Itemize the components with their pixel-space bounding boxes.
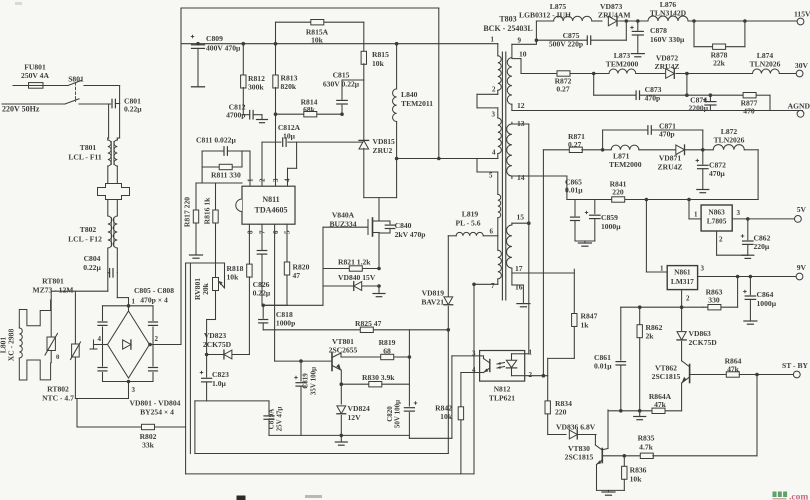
svg-text:2CK75D: 2CK75D bbox=[689, 338, 718, 347]
T803 secondary winding 15-16 bbox=[507, 225, 512, 268]
resistor R872 bbox=[557, 71, 570, 76]
svg-text:LCL - F12: LCL - F12 bbox=[68, 235, 102, 244]
base row R835 bbox=[603, 455, 641, 457]
svg-text:C878: C878 bbox=[650, 26, 667, 35]
svg-text:47: 47 bbox=[293, 271, 301, 280]
svg-text:R836: R836 bbox=[630, 466, 647, 475]
capacitor C815 bbox=[342, 79, 364, 81]
wire cross to T802 bbox=[107, 200, 109, 217]
capacitor C819 bbox=[299, 359, 303, 363]
terminal AGND bbox=[800, 111, 802, 113]
outer loop bottom bbox=[186, 473, 474, 475]
diode VD815 bbox=[359, 140, 369, 149]
wire AC bottom bbox=[2, 103, 65, 105]
svg-text:3: 3 bbox=[701, 265, 705, 273]
9V output bbox=[698, 276, 800, 278]
svg-text:ST - BY: ST - BY bbox=[782, 361, 809, 370]
svg-text:L840: L840 bbox=[401, 90, 418, 99]
resistor R835 bbox=[640, 453, 653, 458]
T803 primary winding 6-7 bbox=[498, 250, 502, 279]
resistor R811 bbox=[202, 166, 242, 168]
resistor R812 bbox=[242, 42, 246, 46]
wire node3 return bbox=[128, 382, 130, 399]
svg-text:1: 1 bbox=[491, 36, 495, 44]
bus vertical outer bbox=[185, 263, 187, 474]
wire pin15 bbox=[512, 222, 529, 224]
resistor R864A bbox=[652, 408, 665, 413]
resistor R818 pin8 bbox=[248, 224, 250, 264]
wire pin9 up bbox=[535, 21, 537, 44]
svg-text:TDA4605: TDA4605 bbox=[255, 206, 288, 215]
svg-text:330: 330 bbox=[708, 296, 720, 305]
degaussing coil plug L801 bbox=[19, 310, 50, 329]
svg-text:N863: N863 bbox=[708, 208, 725, 217]
svg-text:7: 7 bbox=[491, 282, 495, 290]
svg-text:5: 5 bbox=[489, 172, 493, 180]
IC N863 L7805 bbox=[688, 200, 690, 219]
wire C804 to bridge node 1 bbox=[116, 273, 118, 298]
svg-text:VD871: VD871 bbox=[659, 154, 682, 163]
svg-text:5V: 5V bbox=[797, 205, 807, 214]
svg-text:R825 47: R825 47 bbox=[355, 319, 382, 328]
svg-text:VD824: VD824 bbox=[348, 404, 371, 413]
svg-text:PL - 5.6: PL - 5.6 bbox=[455, 219, 480, 228]
svg-text:3: 3 bbox=[132, 386, 136, 394]
emitter bottom row bbox=[269, 434, 409, 436]
svg-text:50V 100μ: 50V 100μ bbox=[394, 400, 402, 428]
svg-text:68: 68 bbox=[383, 347, 391, 356]
capacitor C873 bbox=[592, 72, 596, 76]
svg-text:R821 1.2k: R821 1.2k bbox=[338, 258, 371, 267]
capacitor C862 bbox=[741, 235, 744, 237]
pin6 wire bbox=[274, 224, 276, 361]
svg-text:C823: C823 bbox=[212, 370, 229, 379]
resistor R878 bbox=[692, 19, 696, 23]
bus vertical mid bbox=[189, 263, 191, 454]
capacitor C818 bbox=[262, 305, 264, 318]
resistor R814 bbox=[276, 113, 343, 115]
svg-text:LCL - F11: LCL - F11 bbox=[68, 153, 102, 162]
svg-text:N811: N811 bbox=[262, 195, 279, 204]
capacitor C812A bbox=[261, 142, 263, 186]
wire pin9 bbox=[512, 43, 537, 45]
svg-text:TEM2000: TEM2000 bbox=[609, 160, 642, 169]
svg-text:C840: C840 bbox=[395, 221, 412, 230]
svg-text:160V 330μ: 160V 330μ bbox=[650, 35, 685, 44]
svg-text:2CK75D: 2CK75D bbox=[203, 340, 232, 349]
svg-text:N861: N861 bbox=[674, 268, 691, 277]
svg-text:R817 220: R817 220 bbox=[183, 197, 192, 227]
svg-text:4700p: 4700p bbox=[226, 111, 245, 120]
caption fragment bbox=[237, 496, 246, 500]
svg-text:30V: 30V bbox=[795, 61, 809, 70]
wire pin14 bbox=[512, 175, 567, 177]
svg-text:AGND: AGND bbox=[788, 102, 810, 111]
bottom ground row bbox=[608, 410, 682, 412]
T803 primary winding 1-2 bbox=[497, 44, 499, 56]
line filter T801 bbox=[108, 140, 111, 166]
wire node4 stub bbox=[94, 344, 108, 346]
svg-text:VD823: VD823 bbox=[204, 331, 227, 340]
svg-text:4.7k: 4.7k bbox=[639, 442, 653, 451]
svg-text:RT801: RT801 bbox=[42, 277, 64, 286]
svg-text:C805 - C808: C805 - C808 bbox=[134, 286, 174, 295]
svg-text:VD863: VD863 bbox=[689, 329, 712, 338]
svg-text:C819: C819 bbox=[302, 373, 310, 389]
wire RV801 wiper row bbox=[186, 262, 225, 264]
line filter T802 bbox=[108, 216, 112, 248]
wire AC top bbox=[84, 85, 120, 87]
resistor R842 bbox=[458, 407, 463, 420]
svg-text:6: 6 bbox=[490, 228, 494, 236]
svg-text:C804: C804 bbox=[84, 254, 101, 263]
svg-text:9V: 9V bbox=[797, 263, 807, 272]
inner loop left bbox=[194, 401, 196, 454]
svg-text:T802: T802 bbox=[80, 225, 97, 234]
resistor R877 bbox=[687, 94, 743, 96]
potentiometer RV801 bbox=[213, 278, 219, 291]
svg-text:220V 50Hz: 220V 50Hz bbox=[2, 105, 40, 114]
ground MOSFET source bbox=[378, 286, 380, 294]
svg-text:C815: C815 bbox=[333, 71, 350, 80]
inductor L840 bbox=[396, 44, 398, 89]
wire VT862 emitter to VT830 bbox=[607, 410, 609, 449]
svg-text:220: 220 bbox=[612, 188, 624, 197]
svg-text:2: 2 bbox=[529, 371, 533, 379]
capacitor C804 bbox=[109, 269, 111, 278]
T803 secondary winding 13-14 bbox=[507, 124, 512, 176]
bridge rectifier VD801-VD804 bbox=[108, 311, 150, 378]
terminal 115V bbox=[797, 18, 804, 25]
svg-text:L7805: L7805 bbox=[707, 217, 727, 226]
svg-text:BY254 × 4: BY254 × 4 bbox=[140, 408, 174, 417]
svg-text:300k: 300k bbox=[248, 83, 264, 92]
svg-text:0.22μ: 0.22μ bbox=[253, 289, 271, 298]
N863 pin2 ground bbox=[716, 231, 718, 255]
svg-text:470p: 470p bbox=[645, 94, 661, 103]
wire R835 up bbox=[756, 375, 758, 456]
svg-text:TEM2011: TEM2011 bbox=[401, 99, 433, 108]
resistor R871 bbox=[569, 147, 582, 152]
svg-text:0.27: 0.27 bbox=[556, 85, 569, 94]
capacitor C820 bbox=[408, 330, 410, 406]
svg-text:2: 2 bbox=[686, 295, 690, 303]
svg-text:0.01μ: 0.01μ bbox=[565, 186, 583, 195]
svg-text:4: 4 bbox=[284, 178, 292, 182]
svg-text:9: 9 bbox=[518, 37, 522, 45]
svg-text:10k: 10k bbox=[372, 59, 385, 68]
svg-text:10: 10 bbox=[519, 50, 527, 59]
rail 300V bbox=[181, 43, 498, 45]
svg-text:TLN2026: TLN2026 bbox=[750, 60, 781, 69]
ground VT830 bbox=[597, 489, 625, 491]
svg-text:17: 17 bbox=[515, 264, 523, 273]
svg-text:2: 2 bbox=[492, 86, 496, 94]
svg-text:3: 3 bbox=[272, 178, 280, 182]
wire top rail drop bbox=[438, 8, 440, 159]
T803 secondary winding 9-12 bbox=[511, 44, 513, 57]
resistor R816 bbox=[215, 183, 217, 210]
terminal ST-BY bbox=[793, 371, 800, 378]
wire opto pin3 route bbox=[409, 437, 452, 439]
svg-text:VD801 - VD804: VD801 - VD804 bbox=[130, 399, 181, 408]
svg-text:33k: 33k bbox=[142, 441, 155, 450]
9V input wire bbox=[645, 200, 647, 273]
svg-text:1: 1 bbox=[132, 298, 136, 306]
svg-text:2: 2 bbox=[155, 335, 159, 343]
svg-text:500V 220p: 500V 220p bbox=[549, 40, 583, 49]
wire pin13 bbox=[512, 123, 529, 125]
wire VD872 junction bbox=[685, 72, 689, 76]
svg-text:1: 1 bbox=[247, 178, 255, 182]
svg-text:470p: 470p bbox=[659, 130, 675, 139]
terminal 30V bbox=[796, 70, 803, 77]
svg-text:1: 1 bbox=[529, 349, 533, 357]
svg-text:L819: L819 bbox=[462, 210, 479, 219]
capacitor C864 bbox=[749, 275, 753, 279]
svg-text:10k: 10k bbox=[311, 36, 324, 45]
svg-text:R815: R815 bbox=[372, 50, 389, 59]
svg-text:MZ73 - 12M: MZ73 - 12M bbox=[33, 286, 74, 295]
wire L872 down bbox=[757, 150, 759, 200]
svg-text:.com: .com bbox=[789, 493, 808, 500]
wire pin7 row bbox=[474, 283, 498, 285]
LV distribution row bbox=[567, 199, 758, 201]
resistor R819 bbox=[341, 356, 409, 358]
svg-text:C819A: C819A bbox=[268, 409, 276, 430]
wire pin17 bbox=[512, 272, 574, 274]
svg-text:12: 12 bbox=[517, 101, 525, 110]
svg-text:R830 3.9k: R830 3.9k bbox=[362, 373, 395, 382]
svg-text:2SC1815: 2SC1815 bbox=[565, 453, 594, 462]
resistor R863 bbox=[736, 275, 740, 279]
svg-text:R835: R835 bbox=[638, 434, 655, 443]
svg-text:VD840 15V: VD840 15V bbox=[338, 273, 376, 282]
svg-text:2: 2 bbox=[719, 236, 723, 244]
resistor R802 bbox=[76, 399, 78, 428]
svg-text:820k: 820k bbox=[281, 82, 297, 91]
svg-text:6: 6 bbox=[272, 230, 280, 234]
top rail bbox=[181, 7, 439, 9]
resistor R815A bbox=[276, 21, 364, 23]
svg-text:3: 3 bbox=[737, 209, 741, 217]
svg-text:TLN2026: TLN2026 bbox=[714, 136, 745, 145]
svg-text:4: 4 bbox=[98, 335, 102, 343]
rectified LV rail bbox=[543, 149, 569, 151]
svg-text:47k: 47k bbox=[654, 400, 667, 409]
resistor R847 bbox=[573, 269, 575, 313]
faint smudge top-left bbox=[15, 2, 22, 5]
svg-text:14: 14 bbox=[517, 173, 525, 182]
svg-text:470μ: 470μ bbox=[709, 169, 725, 178]
gate column bbox=[322, 227, 324, 305]
gate drive row bbox=[262, 304, 323, 306]
svg-text:2: 2 bbox=[259, 178, 267, 182]
svg-text:V840A: V840A bbox=[332, 211, 355, 220]
svg-text:15: 15 bbox=[517, 213, 525, 222]
svg-text:C809: C809 bbox=[206, 34, 223, 43]
svg-text:1000p: 1000p bbox=[276, 319, 295, 328]
resistor R825 bbox=[263, 329, 448, 331]
T803 core bbox=[501, 52, 503, 300]
resistor R862 bbox=[638, 305, 642, 309]
115V rail bbox=[536, 20, 553, 22]
svg-text:TLP621: TLP621 bbox=[489, 394, 515, 403]
svg-text:VD836 6.8V: VD836 6.8V bbox=[556, 423, 596, 432]
core cross symbol bbox=[98, 184, 130, 200]
wire R847 to R834 bbox=[548, 357, 575, 359]
svg-text:12V: 12V bbox=[348, 413, 362, 422]
capacitor C859 bbox=[585, 212, 588, 214]
capacitor C826 pin7 bbox=[261, 224, 263, 249]
capacitor C878 bbox=[636, 19, 640, 23]
wire pin16 ground bbox=[512, 284, 524, 286]
svg-text:10μ: 10μ bbox=[283, 132, 296, 141]
watermark bbox=[773, 492, 777, 498]
capacitor C819A bbox=[268, 401, 270, 414]
svg-text:TEM2000: TEM2000 bbox=[606, 60, 639, 69]
svg-text:2SC2655: 2SC2655 bbox=[329, 346, 358, 355]
svg-text:0.01μ: 0.01μ bbox=[594, 362, 612, 371]
svg-text:2k: 2k bbox=[646, 332, 655, 341]
svg-text:1.0μ: 1.0μ bbox=[212, 379, 226, 388]
resistor R834 bbox=[545, 401, 550, 414]
svg-text:8: 8 bbox=[247, 230, 255, 234]
svg-text:10k: 10k bbox=[440, 412, 453, 421]
svg-text:1000μ: 1000μ bbox=[757, 299, 777, 308]
svg-text:NTC - 4.7: NTC - 4.7 bbox=[42, 394, 74, 403]
capacitor C872 bbox=[696, 160, 699, 162]
svg-text:1: 1 bbox=[694, 211, 698, 219]
optocoupler N812 TLP621 bbox=[480, 351, 525, 382]
pin3 bus / resistor R813 bbox=[275, 22, 277, 75]
svg-text:0.22μ: 0.22μ bbox=[124, 105, 142, 114]
resistor R836 bbox=[623, 454, 627, 458]
svg-text:250V 4A: 250V 4A bbox=[21, 71, 49, 80]
svg-text:25V 47μ: 25V 47μ bbox=[276, 407, 284, 432]
svg-text:R811 330: R811 330 bbox=[211, 171, 241, 180]
svg-text:T801: T801 bbox=[80, 143, 97, 152]
svg-text:LGB0312 - IUH: LGB0312 - IUH bbox=[519, 11, 571, 20]
T803 primary jog 2-3 bbox=[476, 94, 478, 108]
wire node2 to HV bus bbox=[148, 343, 152, 347]
svg-text:35V 100μ: 35V 100μ bbox=[310, 367, 318, 395]
wire N812 pin4 bbox=[461, 372, 480, 374]
svg-text:R816 1k: R816 1k bbox=[203, 197, 212, 225]
clamp box bottom bbox=[364, 197, 397, 199]
svg-text:220μ: 220μ bbox=[754, 242, 770, 251]
svg-text:θ: θ bbox=[56, 354, 60, 361]
wire T802 down left bbox=[107, 248, 109, 291]
svg-text:ZRU2: ZRU2 bbox=[373, 146, 393, 155]
svg-text:3: 3 bbox=[492, 111, 496, 119]
wire T802 down right bbox=[116, 248, 118, 273]
IC N811 TDA4605 bbox=[242, 186, 295, 224]
svg-text:10k: 10k bbox=[630, 475, 643, 484]
inner loop bottom bbox=[195, 453, 448, 455]
wire pin10 bbox=[512, 58, 521, 60]
svg-text:470p × 4: 470p × 4 bbox=[140, 296, 168, 305]
capacitor C823 bbox=[200, 372, 203, 374]
row C823 bottom bbox=[195, 400, 269, 402]
svg-text:R847: R847 bbox=[581, 312, 598, 321]
svg-text:ZRU4Z: ZRU4Z bbox=[658, 163, 683, 172]
5V output bbox=[732, 218, 798, 220]
svg-text:VD819: VD819 bbox=[422, 289, 445, 298]
capacitor C801 bbox=[111, 99, 113, 108]
svg-text:400V 470μ: 400V 470μ bbox=[206, 44, 241, 53]
svg-text:22k: 22k bbox=[713, 59, 726, 68]
HV bus vertical bbox=[180, 8, 182, 345]
svg-text:RT802: RT802 bbox=[47, 385, 69, 394]
svg-text:68k: 68k bbox=[303, 105, 316, 114]
svg-text:ZRU4AM: ZRU4AM bbox=[598, 11, 630, 20]
svg-text:1: 1 bbox=[660, 265, 664, 273]
svg-text:T803: T803 bbox=[499, 15, 516, 24]
svg-text:630V 0.22μ: 630V 0.22μ bbox=[323, 80, 360, 89]
ADJ row bbox=[681, 290, 683, 307]
capacitor C874 bbox=[709, 93, 713, 97]
svg-text:N812: N812 bbox=[494, 385, 511, 394]
svg-text:C859: C859 bbox=[601, 213, 618, 222]
wire AC neutral row bbox=[51, 290, 108, 292]
zener VD824 bbox=[340, 384, 342, 404]
svg-text:1k: 1k bbox=[581, 321, 590, 330]
svg-text:4: 4 bbox=[492, 149, 496, 157]
T803 primary winding 5-6 bbox=[497, 172, 499, 194]
base row ST-BY bbox=[690, 374, 727, 376]
capacitor C871 bbox=[601, 148, 605, 152]
resistor R817 bbox=[196, 182, 242, 184]
wire pin7 drop bbox=[473, 284, 475, 474]
svg-text:BAV21: BAV21 bbox=[421, 298, 444, 307]
resistor R815 bbox=[363, 22, 365, 52]
svg-text:C811 0.022μ: C811 0.022μ bbox=[196, 136, 236, 145]
svg-text:2kV 470p: 2kV 470p bbox=[395, 230, 426, 239]
wire T801 to cross bbox=[107, 166, 109, 184]
svg-text:BCK - 25403L: BCK - 25403L bbox=[483, 24, 532, 33]
AGND row bbox=[512, 110, 802, 112]
wire N812 pin3 bbox=[452, 355, 480, 357]
30V rail bbox=[521, 73, 557, 75]
IC N861 LM317 bbox=[667, 266, 697, 290]
capacitor C809 bbox=[196, 42, 200, 46]
resistor R864 bbox=[726, 372, 739, 377]
resistor R841 bbox=[612, 197, 625, 202]
svg-text:115V: 115V bbox=[794, 10, 810, 19]
svg-text:LM317: LM317 bbox=[671, 277, 694, 286]
capacitor C812 bbox=[243, 114, 250, 116]
ground emitter row bbox=[340, 435, 342, 442]
svg-text:20k: 20k bbox=[201, 282, 210, 295]
svg-text:0.27: 0.27 bbox=[568, 140, 581, 149]
svg-text:VD815: VD815 bbox=[373, 137, 396, 146]
svg-text:XC - 2988: XC - 2988 bbox=[7, 329, 16, 362]
svg-text:16: 16 bbox=[515, 283, 523, 292]
wire N812 pin2 row bbox=[525, 375, 548, 377]
svg-text:C864: C864 bbox=[757, 290, 774, 299]
svg-text:47k: 47k bbox=[727, 365, 740, 374]
svg-text:10k: 10k bbox=[227, 273, 240, 282]
capacitor C840 bbox=[379, 220, 390, 222]
svg-text:1000μ: 1000μ bbox=[601, 222, 621, 231]
svg-text:220: 220 bbox=[555, 408, 567, 417]
svg-text:2SC1815: 2SC1815 bbox=[652, 372, 681, 381]
ground C859 bbox=[575, 240, 595, 242]
T803 primary jog 4-5 bbox=[476, 159, 478, 173]
wire to T801 bbox=[119, 104, 121, 139]
resistor R820 pin5 bbox=[286, 224, 288, 261]
